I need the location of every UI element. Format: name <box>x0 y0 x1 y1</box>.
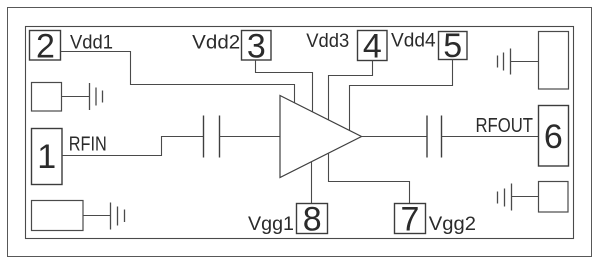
pin box 7 <box>395 200 426 238</box>
svg-text:Vdd1: Vdd1 <box>70 32 113 53</box>
svg-text:4: 4 <box>363 28 382 66</box>
svg-text:Vdd2: Vdd2 <box>192 32 240 53</box>
svg-text:Vgg1: Vgg1 <box>248 214 294 235</box>
wire Vgg2 trace <box>329 153 410 203</box>
pin box 4 <box>358 28 388 66</box>
ground symbol top-right <box>498 49 539 75</box>
svg-text:7: 7 <box>401 200 420 238</box>
svg-text:1: 1 <box>37 138 56 176</box>
amplifier A1 <box>280 96 362 178</box>
svg-text:6: 6 <box>544 118 563 156</box>
ground symbol bottom-left <box>83 203 125 230</box>
chip outline <box>26 27 574 239</box>
ground pad bottom-left <box>32 201 84 231</box>
svg-text:2: 2 <box>36 27 55 65</box>
pin box 6 <box>539 106 569 167</box>
wire Vdd2 trace <box>256 60 313 112</box>
wire C2 to pin 6 <box>442 136 539 138</box>
ground pad top-right <box>539 32 569 90</box>
pin box 3 <box>242 27 272 65</box>
svg-text:Vgg2: Vgg2 <box>429 214 476 235</box>
pin box 1 <box>32 129 63 185</box>
wire Vgg1 trace <box>311 162 313 203</box>
pin box 2 <box>30 27 61 65</box>
pin box 8 <box>297 200 328 238</box>
svg-text:5: 5 <box>443 27 462 65</box>
wire Vdd4 trace <box>350 60 453 131</box>
ground pad top-left <box>32 83 62 112</box>
capacitor C1 <box>204 116 220 158</box>
wire C1 to amplifier <box>220 136 281 138</box>
capacitor C2 <box>427 116 442 158</box>
wire RFIN trace <box>62 137 204 156</box>
ground symbol bottom-right <box>498 184 539 211</box>
ground pad bottom-right <box>539 182 569 213</box>
svg-text:3: 3 <box>247 27 266 65</box>
svg-text:Vdd3: Vdd3 <box>306 31 349 52</box>
svg-text:8: 8 <box>303 200 322 238</box>
wire Vdd1 trace <box>61 52 295 103</box>
wire Vdd3 trace <box>329 61 373 120</box>
svg-text:RFIN: RFIN <box>69 134 107 156</box>
svg-text:RFOUT: RFOUT <box>476 115 534 137</box>
pin box 5 <box>439 27 468 65</box>
ground symbol top-left <box>62 83 103 110</box>
svg-text:Vdd4: Vdd4 <box>391 31 436 52</box>
wire amplifier to C2 <box>362 136 428 138</box>
